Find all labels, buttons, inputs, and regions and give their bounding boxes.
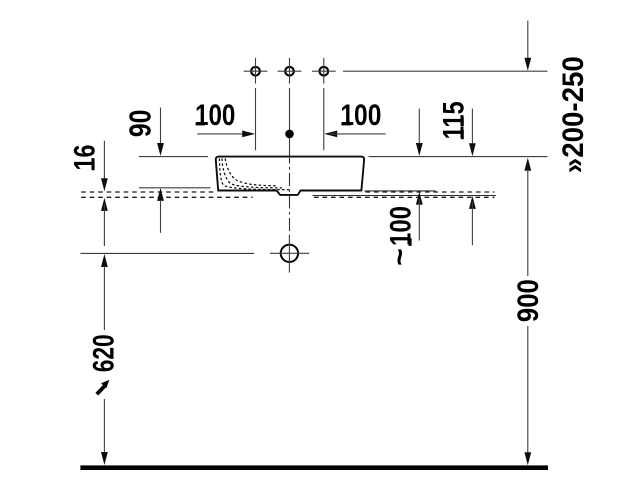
extension line below right tap hole bbox=[323, 88, 325, 150]
bowl depth reference line left bbox=[139, 187, 211, 189]
dashed countertop line upper, right segment bbox=[366, 191, 495, 193]
svg-text:100: 100 bbox=[385, 206, 418, 246]
svg-text:16: 16 bbox=[69, 145, 102, 171]
dimension 16 bbox=[101, 141, 108, 246]
dimension 100 left: line and arrow bbox=[197, 131, 255, 138]
dimension 900 line with arrows bbox=[524, 158, 531, 466]
extension line below center tap hole bbox=[289, 88, 291, 150]
serif foot of digit 1 in ~100 label bbox=[409, 238, 412, 246]
crosshair of center tap hole bbox=[278, 58, 302, 84]
tap hole circle center bbox=[285, 67, 294, 76]
serif foot of digit 1 in right 100 label bbox=[341, 122, 350, 125]
svg-text:900: 900 bbox=[512, 279, 545, 322]
basin interior dotted contour 2 bbox=[222, 159, 282, 188]
solid extension of drain base to right (B) bbox=[313, 195, 496, 197]
center reference dot bbox=[285, 130, 294, 139]
dimension 100 right: arrow and line bbox=[324, 131, 385, 138]
drain outlet circle bbox=[281, 245, 298, 262]
floor line bbox=[80, 465, 548, 470]
620 adjustable-height arrow symbol bbox=[97, 380, 110, 394]
dimension ~100 bbox=[416, 109, 423, 241]
dimension 620 line with arrows bbox=[101, 254, 108, 465]
serif foot of digit 1 in 16 label bbox=[92, 161, 95, 170]
basin interior dotted contour 1 bbox=[219, 159, 289, 190]
basin top extension line right bbox=[369, 156, 548, 158]
serif foot of first digit 1 in 115 label bbox=[461, 130, 464, 139]
svg-text:620: 620 bbox=[87, 334, 120, 372]
dimension 200-250 top segment bbox=[524, 21, 531, 71]
basin outline bbox=[216, 157, 364, 195]
crosshair of left tap hole bbox=[244, 58, 268, 84]
basin interior dotted contour 3 bbox=[225, 159, 276, 186]
dimension 90 bbox=[157, 108, 164, 233]
svg-text:100: 100 bbox=[340, 99, 381, 132]
svg-text:»200-250: »200-250 bbox=[557, 56, 590, 173]
dashed countertop line lower, left segment bbox=[81, 196, 252, 198]
dashed countertop line upper, left segment bbox=[81, 191, 215, 193]
tap hole reference line to right bbox=[343, 70, 548, 72]
serif foot of digit 1 in left 100 label bbox=[196, 122, 205, 125]
dashed countertop line lower, right segment bbox=[314, 196, 495, 198]
basin top extension line left bbox=[139, 156, 208, 158]
svg-text:100: 100 bbox=[195, 99, 235, 132]
svg-text:~: ~ bbox=[383, 248, 416, 266]
solid extension of basin bottom to right (A) bbox=[364, 190, 435, 192]
svg-text:115: 115 bbox=[438, 101, 471, 139]
drain outlet crosshair bbox=[270, 235, 309, 273]
crosshair of right tap hole bbox=[312, 58, 336, 84]
centerline (dash-dot) through basin bbox=[289, 151, 291, 235]
tap hole circle right bbox=[320, 67, 329, 76]
drain outlet reference line left bbox=[80, 252, 254, 254]
serif foot of second digit 1 in 115 label bbox=[461, 117, 464, 126]
svg-text:90: 90 bbox=[123, 110, 158, 137]
tap hole circle left bbox=[251, 67, 260, 76]
dimension 115 bbox=[469, 109, 476, 246]
extension line below left tap hole bbox=[255, 88, 257, 150]
